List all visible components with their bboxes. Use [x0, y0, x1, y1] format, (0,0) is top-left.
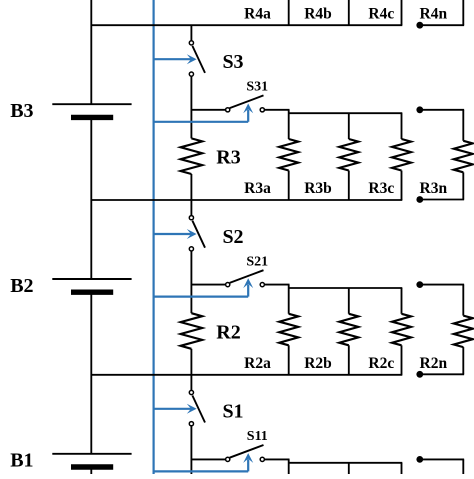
resistor R3n [454, 141, 473, 173]
label R3n [420, 180, 448, 197]
wire rail to resistor R2a [288, 285, 290, 314]
label switch S11 [247, 429, 268, 444]
label battery B1 [10, 450, 33, 472]
svg-text:R3n: R3n [420, 180, 448, 197]
wire rail to resistor R2b [348, 288, 350, 314]
wire switch S11 to bank [264, 458, 289, 460]
wire blue control line [153, 0, 155, 474]
svg-text:R4a: R4a [244, 5, 271, 22]
label R2n [420, 355, 448, 372]
battery B3 negative plate [71, 115, 113, 120]
blue arrow to switch S1 [154, 404, 196, 414]
wire rail to resistor R3c [401, 113, 403, 139]
svg-text:R3b: R3b [304, 180, 332, 197]
label R4n [420, 5, 448, 22]
resistor R3a [279, 139, 298, 171]
wire battery column below bus [90, 375, 92, 454]
label switch S31 [246, 80, 268, 95]
label R4b [304, 5, 332, 22]
wire bus to switch S2 [190, 199, 192, 215]
battery B1 negative plate [71, 464, 113, 469]
switch S1 blade [192, 396, 205, 423]
switch S3 bottom terminal [189, 72, 193, 76]
wire resistor R2a to bus [288, 345, 290, 375]
wire R3n top [462, 110, 464, 141]
switch S21 right terminal [260, 283, 264, 287]
battery B3 positive plate [52, 103, 131, 105]
svg-text:S11: S11 [247, 429, 268, 444]
wire resistor R3a to bus [288, 171, 290, 201]
wire R2n bottom [462, 347, 464, 374]
svg-text:S1: S1 [222, 401, 243, 423]
wire R3n top rail [420, 109, 464, 111]
battery B2 positive plate [52, 278, 131, 280]
wire R2n bottom rail [420, 373, 464, 375]
wire switch S31 to bank [264, 109, 289, 111]
switch S3 blade [192, 46, 205, 73]
wire battery column top segment [90, 0, 92, 104]
blue arrow to switch S3 [154, 54, 196, 64]
svg-text:B2: B2 [10, 275, 33, 297]
wire battery B3 negative to bus [90, 117, 92, 200]
node R4n continuation dot [416, 22, 423, 29]
resistor R4a bottom wire [288, 0, 290, 25]
resistor R2c [392, 314, 411, 346]
svg-text:R4c: R4c [368, 5, 394, 22]
switch S11 blade [230, 445, 264, 458]
label switch S1 [222, 401, 243, 423]
svg-text:R2: R2 [216, 321, 240, 343]
switch S31 left terminal [226, 108, 230, 112]
resistor R2 [181, 313, 203, 349]
resistor R4c bottom wire [401, 0, 403, 25]
wire junction to switch S31 [191, 109, 225, 111]
switch S1 top terminal [189, 390, 193, 394]
wire rail to resistor R3b [348, 113, 350, 139]
switch S3 top terminal [189, 41, 193, 45]
label switch S2 [222, 226, 243, 248]
svg-text:R3c: R3c [368, 180, 394, 197]
wire bank top rail R2 [289, 287, 403, 289]
svg-text:B3: B3 [10, 100, 33, 122]
label R2a [244, 355, 271, 372]
resistor R3c [392, 139, 411, 171]
wire rail to resistor R3a [288, 110, 290, 139]
svg-text:R4n: R4n [420, 5, 448, 22]
switch S31 blade [230, 95, 264, 108]
node R3n bottom dot [416, 196, 423, 203]
wire resistor R3b to bus [348, 171, 350, 201]
wire R1n top [462, 459, 464, 474]
blue arrow to switch S2 [154, 229, 196, 239]
label battery B2 [10, 275, 33, 297]
wire R3n bottom [462, 172, 464, 199]
node R2n bottom dot [416, 371, 423, 378]
label R2c [368, 355, 394, 372]
wire R1n top rail [420, 458, 464, 460]
wire R3n bottom rail [420, 199, 464, 201]
label resistor R2 [216, 321, 240, 343]
wire R2n top rail [420, 284, 464, 286]
resistor R3b [339, 139, 358, 171]
bus line top (R4 bank bottom rail) [91, 24, 403, 26]
svg-text:S3: S3 [222, 51, 243, 73]
wire resistor R3 to bus [190, 174, 192, 200]
node R3n top dot [416, 106, 423, 113]
switch S2 blade [192, 221, 205, 248]
blue arrow to switch S21 [154, 278, 253, 296]
wire battery B2 negative to bus [90, 292, 92, 375]
bus line (bank R3 bottom rail) [91, 199, 403, 201]
switch S11 left terminal [226, 457, 230, 461]
label R3c [368, 180, 394, 197]
label switch S3 [222, 51, 243, 73]
label R2b [304, 355, 332, 372]
resistor R2n [454, 316, 473, 348]
wire R2n top [462, 285, 464, 316]
wire bank top rail R1 [289, 462, 403, 464]
node R2n top dot [416, 281, 423, 288]
switch S31 right terminal [260, 108, 264, 112]
node R1n top dot [416, 456, 423, 463]
battery B1 positive plate [52, 453, 131, 455]
blue arrow to switch S11 [154, 453, 253, 471]
blue arrow to switch S31 [154, 104, 253, 122]
wire switch S1 down [190, 426, 192, 474]
switch S21 left terminal [226, 283, 230, 287]
switch S1 bottom terminal [189, 422, 193, 426]
svg-text:R4b: R4b [304, 5, 332, 22]
wire bus to switch S1 [190, 374, 192, 390]
wire switch S3 to resistor R3 [190, 76, 192, 138]
svg-text:R3a: R3a [244, 180, 271, 197]
wire battery B1 negative lead [90, 467, 92, 474]
resistor R3 [181, 138, 203, 174]
svg-text:S31: S31 [246, 80, 268, 95]
label R3b [304, 180, 332, 197]
wire R4n bottom rail [420, 24, 464, 26]
wire resistor R3c to bus [401, 171, 403, 201]
wire bus to switch S3 [190, 25, 192, 41]
wire switch S21 to bank [264, 284, 289, 286]
label resistor R3 [216, 147, 240, 169]
wire resistor R2c to bus [401, 345, 403, 375]
label switch S21 [246, 254, 268, 269]
wire rail to resistor R1c [401, 463, 403, 474]
wire rail to resistor R1b [348, 463, 350, 474]
resistor R4b bottom wire [348, 0, 350, 25]
resistor R4n bottom wire [462, 0, 464, 25]
bus line (bank R2 bottom rail) [91, 374, 403, 376]
wire junction to switch S21 [191, 284, 225, 286]
svg-text:B1: B1 [10, 450, 33, 472]
svg-text:R2c: R2c [368, 355, 394, 372]
switch S2 top terminal [189, 216, 193, 220]
svg-text:S21: S21 [246, 254, 268, 269]
switch S2 bottom terminal [189, 247, 193, 251]
label R3a [244, 180, 271, 197]
svg-text:R2a: R2a [244, 355, 271, 372]
wire bank top rail R3 [289, 112, 403, 114]
switch S11 right terminal [260, 457, 264, 461]
wire resistor R2b to bus [348, 345, 350, 375]
svg-text:R2b: R2b [304, 355, 332, 372]
wire rail to resistor R2c [401, 288, 403, 314]
svg-text:R2n: R2n [420, 355, 448, 372]
wire junction to switch S11 [191, 458, 225, 460]
label battery B3 [10, 100, 33, 122]
wire resistor R2 to bus [190, 349, 192, 375]
wire rail to resistor R1a [288, 459, 290, 474]
wire battery column below bus [90, 200, 92, 279]
resistor R2a [279, 314, 298, 346]
label R4c [368, 5, 394, 22]
battery B2 negative plate [71, 290, 113, 295]
resistor R2b [339, 314, 358, 346]
label R4a [244, 5, 271, 22]
svg-text:S2: S2 [222, 226, 243, 248]
wire switch S2 to resistor R2 [190, 251, 192, 313]
svg-text:R3: R3 [216, 147, 240, 169]
switch S21 blade [230, 270, 264, 283]
